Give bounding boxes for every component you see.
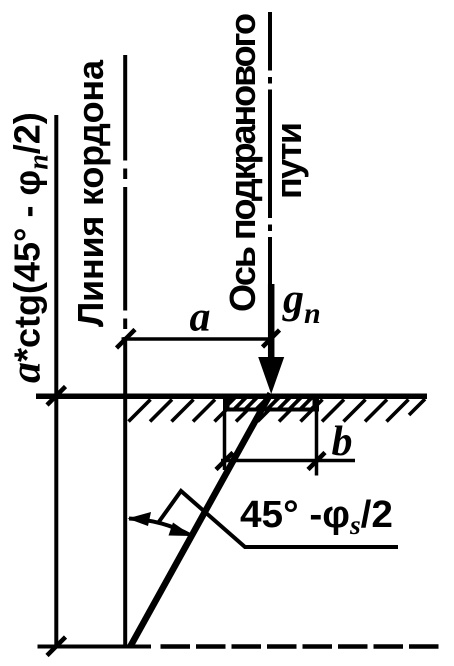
svg-text:a: a bbox=[190, 295, 211, 341]
cordon line (dash-dot vertical) bbox=[123, 55, 127, 646]
dimension line b bbox=[221, 459, 355, 463]
svg-text:пути: пути bbox=[268, 122, 309, 199]
svg-text:45° -φs/2: 45° -φs/2 bbox=[240, 494, 393, 540]
dimension line a bbox=[122, 337, 273, 341]
slip plane incline bbox=[130, 394, 271, 648]
angle arc double arrow bbox=[129, 519, 191, 536]
force arrowhead bbox=[258, 357, 284, 394]
tick at right end of b bbox=[308, 453, 325, 470]
tick at left end of a bbox=[117, 330, 136, 349]
svg-text:a*ctg(45° - φn/2): a*ctg(45° - φn/2) bbox=[4, 112, 55, 383]
tick at left end of b bbox=[216, 453, 233, 470]
bottom boundary dashed part bbox=[161, 644, 442, 649]
crane beam strip (hatched footing) bbox=[223, 398, 328, 412]
ground surface line bbox=[36, 393, 427, 399]
force line g_n (thick) bbox=[268, 284, 275, 359]
svg-text:Линия кордона: Линия кордона bbox=[70, 59, 111, 327]
leader line for angle label bbox=[158, 491, 398, 547]
b extension line left bbox=[223, 412, 227, 470]
tick at bottom on left dimension line bbox=[47, 637, 66, 656]
tick at ground level on left dimension line bbox=[47, 387, 66, 406]
arrowhead left of angle arc bbox=[128, 512, 152, 526]
crane track axis line (dash-dot vertical) bbox=[268, 12, 272, 292]
b extension line right bbox=[315, 399, 319, 476]
arrowhead right of angle arc bbox=[169, 523, 193, 537]
svg-text:b: b bbox=[332, 419, 353, 465]
tick at right end of a bbox=[263, 330, 280, 347]
ground hatching bbox=[129, 399, 426, 422]
dimension extension line (left vertical, a*ctg depth) bbox=[54, 115, 58, 647]
bottom boundary solid part bbox=[38, 645, 152, 649]
svg-text:Ось подкранового: Ось подкранового bbox=[222, 13, 263, 312]
